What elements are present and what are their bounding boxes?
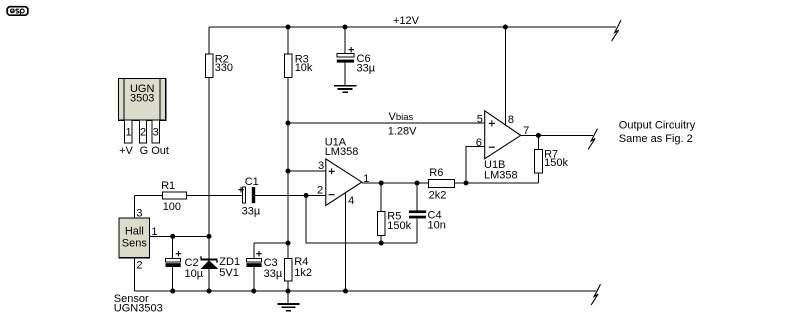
node out-R7 xyxy=(536,133,541,138)
capacitor C4 xyxy=(409,183,426,243)
esp logo xyxy=(7,7,28,16)
node pin1-ZD1 xyxy=(207,234,212,239)
node rail-pin8 xyxy=(503,25,508,30)
node rail-C6 xyxy=(343,25,348,30)
wire feedback U1A xyxy=(306,196,417,244)
node U1A plus input xyxy=(286,169,291,174)
svg-text:Hall: Hall xyxy=(125,226,144,238)
capacitor C1 xyxy=(238,187,255,203)
wire signal input left xyxy=(134,195,162,197)
svg-text:4: 4 xyxy=(348,195,354,207)
wire U1B pin 8 to rail xyxy=(504,27,506,125)
wire R1 to C1 xyxy=(187,195,243,197)
wire to U1A plus input xyxy=(288,170,326,172)
break symbol output xyxy=(588,129,597,150)
svg-text:Out: Out xyxy=(151,145,169,157)
svg-text:Vbias: Vbias xyxy=(389,111,414,123)
svg-text:LM358: LM358 xyxy=(325,146,359,158)
break symbol top rail xyxy=(612,20,621,41)
svg-text:5: 5 xyxy=(477,113,483,125)
svg-text:2k2: 2k2 xyxy=(429,189,447,201)
capacitor C2 xyxy=(166,236,182,291)
svg-text:33µ: 33µ xyxy=(264,268,283,280)
resistor R6 xyxy=(428,180,454,188)
svg-text:150k: 150k xyxy=(387,220,411,232)
wire C3 to bias net xyxy=(254,242,288,244)
wire Vbias horizontal xyxy=(288,122,485,124)
wire U1A output xyxy=(362,182,429,184)
UGN3503 package body xyxy=(119,79,166,121)
svg-text:5V1: 5V1 xyxy=(219,267,239,279)
R4 labels xyxy=(294,256,312,279)
svg-text:LM358: LM358 xyxy=(484,170,518,182)
U1B name labels xyxy=(484,159,518,182)
node rail-R3 xyxy=(286,25,291,30)
resistor R1 xyxy=(163,192,187,199)
wire U1B output xyxy=(521,134,593,136)
resistor R2 xyxy=(206,27,214,236)
svg-text:3: 3 xyxy=(318,160,324,172)
node rail-R4 xyxy=(286,289,291,294)
node rail-C2 xyxy=(170,289,175,294)
ground under C6 xyxy=(334,86,357,92)
wire to U1B pin6 xyxy=(466,147,485,183)
svg-text:150k: 150k xyxy=(544,157,568,169)
svg-text:10µ: 10µ xyxy=(185,268,204,280)
svg-text:6: 6 xyxy=(476,137,482,149)
svg-text:8: 8 xyxy=(508,114,514,126)
U1A name labels xyxy=(325,136,359,158)
svg-text:Same as Fig. 2: Same as Fig. 2 xyxy=(619,133,693,145)
resistor R5 xyxy=(378,183,385,243)
node Vbias xyxy=(286,121,291,126)
Sensor caption xyxy=(114,293,163,315)
C6 labels xyxy=(357,53,376,75)
svg-text:1.28V: 1.28V xyxy=(388,125,417,137)
wire Hall pin2 down xyxy=(133,258,135,291)
ground under R4 xyxy=(277,291,299,311)
C3 labels xyxy=(264,257,283,280)
resistor R4 xyxy=(285,243,293,291)
node U1A minus input xyxy=(304,193,309,198)
wire U1A pin4 to rail xyxy=(345,193,347,291)
R7 labels xyxy=(544,148,568,169)
Hall sensor box xyxy=(119,218,150,258)
node out-C4 xyxy=(415,181,420,186)
wire C1 to U1A minus input xyxy=(255,195,326,197)
svg-text:1: 1 xyxy=(125,127,131,139)
svg-text:2: 2 xyxy=(317,184,323,196)
svg-text:C1: C1 xyxy=(245,176,259,188)
op-amp U1B xyxy=(485,111,521,159)
svg-text:G: G xyxy=(140,145,149,157)
wire R6 right xyxy=(455,182,539,184)
svg-text:UGN3503: UGN3503 xyxy=(114,303,163,315)
package pin 3 xyxy=(152,120,159,143)
node feedback-R5 xyxy=(379,241,384,246)
svg-text:3: 3 xyxy=(136,208,142,220)
svg-text:1k2: 1k2 xyxy=(294,267,312,279)
svg-text:2: 2 xyxy=(140,127,146,139)
wire bias net vertical xyxy=(287,123,289,243)
svg-text:33µ: 33µ xyxy=(242,205,261,217)
svg-text:+V: +V xyxy=(119,145,133,157)
svg-text:2: 2 xyxy=(136,260,142,272)
Output circuitry caption xyxy=(619,120,696,145)
R2 labels xyxy=(215,53,233,74)
C1 labels xyxy=(242,176,261,217)
package pin 2 xyxy=(139,120,146,143)
bottom rail wire xyxy=(134,290,596,292)
svg-text:330: 330 xyxy=(215,62,233,74)
package pin 1 xyxy=(125,120,133,143)
ZD1 labels xyxy=(219,256,240,279)
svg-text:100: 100 xyxy=(163,201,181,213)
package pin labels xyxy=(119,145,169,157)
node bias-C3-R4 xyxy=(286,241,291,246)
resistor R3 xyxy=(285,27,293,123)
svg-text:R1: R1 xyxy=(161,180,175,192)
op-amp U1A xyxy=(326,159,362,206)
capacitor C6 xyxy=(337,27,354,86)
R6 labels xyxy=(429,167,447,201)
svg-text:33µ: 33µ xyxy=(357,63,376,75)
node rail-C3 xyxy=(251,289,256,294)
R3 labels xyxy=(295,53,313,74)
node out-R5 xyxy=(379,181,384,186)
wire Hall pin1 xyxy=(150,235,209,237)
capacitor C3 xyxy=(246,243,261,291)
R5 labels xyxy=(387,210,411,232)
node pin1-C2 xyxy=(170,234,175,239)
R1 labels xyxy=(161,180,181,213)
svg-text:R6: R6 xyxy=(429,167,443,179)
wire Hall pin3 to R1 xyxy=(133,196,135,219)
svg-text:3: 3 xyxy=(153,127,159,139)
svg-text:+12V: +12V xyxy=(393,15,420,27)
C4 labels xyxy=(428,210,446,232)
break symbol bottom rail xyxy=(591,284,600,305)
svg-text:3503: 3503 xyxy=(130,92,154,104)
svg-text:Sens: Sens xyxy=(122,238,148,250)
node rail-pin4 xyxy=(343,289,348,294)
resistor R7 xyxy=(535,135,543,183)
+12V rail wire xyxy=(209,26,616,28)
svg-text:Output Circuitry: Output Circuitry xyxy=(619,120,696,132)
node rail-ZD1 xyxy=(207,289,212,294)
node R6-feedback xyxy=(464,181,469,186)
svg-text:10n: 10n xyxy=(428,220,446,232)
svg-text:10k: 10k xyxy=(295,62,313,74)
zener diode ZD1 xyxy=(201,236,218,291)
C2 labels xyxy=(185,257,204,280)
